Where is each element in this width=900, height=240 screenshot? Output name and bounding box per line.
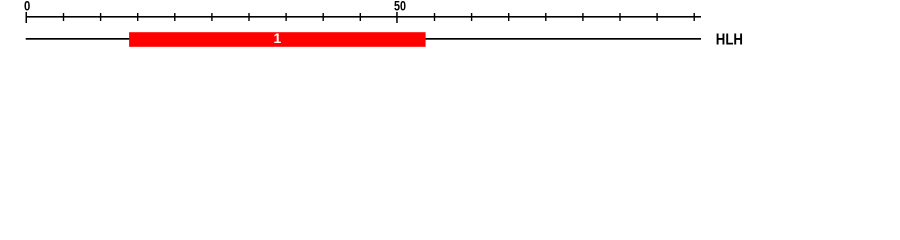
ruler axis line [26, 16, 701, 18]
ruler major tick 50 [396, 12, 398, 23]
svg-text:HLH: HLH [716, 32, 743, 49]
svg-text:0: 0 [24, 0, 30, 14]
svg-text:1: 1 [273, 31, 281, 46]
ruler major tick 0 [26, 12, 28, 23]
protein backbone line [26, 38, 701, 40]
background [0, 0, 900, 58]
svg-text:50: 50 [394, 0, 406, 14]
domain box (red) [129, 32, 426, 47]
ruler minor ticks [63, 13, 695, 21]
